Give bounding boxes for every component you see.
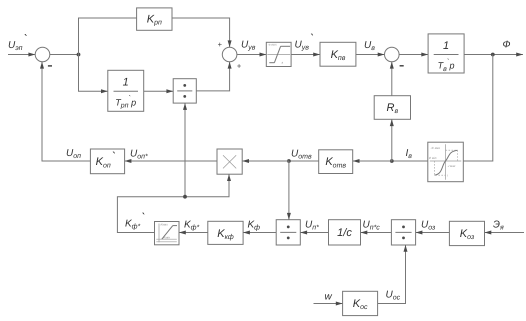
wire Kрп to S2 top <box>172 18 230 47</box>
symbol saturation curve NL1 <box>267 42 290 64</box>
wire Kф* rail <box>117 174 229 232</box>
wire node F down to NL2 <box>463 55 493 162</box>
svg-text:Kмах: Kмах <box>161 222 169 226</box>
wire M1 to Kоп <box>125 160 217 162</box>
divider D1 <box>173 79 196 103</box>
wire Kкф to NL3 <box>179 232 208 234</box>
wire Uэп input <box>8 54 35 56</box>
divider D2 <box>276 220 300 245</box>
wire Kос to divider D3 bottom <box>378 245 406 304</box>
label minus at S3 <box>400 65 404 67</box>
block Kотв <box>319 150 353 174</box>
wire 1/Tвp to node F and output <box>464 54 523 56</box>
wire Эя input <box>485 232 525 234</box>
symbol magnetization curve NL2 <box>429 144 462 180</box>
junction node F (flux) <box>491 53 495 57</box>
wire node B down to divider D2 <box>288 161 290 220</box>
wire Kотв to node B <box>289 160 319 162</box>
wire S2 to limiter NL1 <box>237 54 266 56</box>
nonlinearity NL3 (limiter) <box>155 222 180 245</box>
block 1/Tрпp (integrator) <box>108 70 144 111</box>
summing junction summer S1 (Uэп - Uоп) <box>35 47 50 62</box>
wire node A up to Kрп <box>79 18 137 55</box>
symbol multiply cross M1 <box>223 155 236 168</box>
wire S3 to 1/Tвp <box>399 54 428 56</box>
wire node Iв to Kотв <box>353 160 392 162</box>
block Kпв <box>320 42 356 66</box>
svg-text:w: w <box>325 292 333 303</box>
block 1/c <box>329 220 361 245</box>
junction node Iв <box>390 159 394 163</box>
svg-text:-Ф мах: -Ф мах <box>431 146 441 150</box>
nonlinearity NL2 (magnetization curve) <box>428 142 464 182</box>
svg-text:-I мах: -I мах <box>448 164 456 168</box>
wire divider D3 to 1/c <box>361 232 392 234</box>
svg-text:Tв`p: Tв`p <box>438 57 455 73</box>
wire NL1 to Kпв <box>291 54 320 56</box>
svg-text:1: 1 <box>443 40 449 52</box>
label minus at S1 <box>48 65 52 67</box>
svg-text:1: 1 <box>123 77 129 89</box>
svg-text:+: + <box>237 61 242 70</box>
multiplier M1 <box>217 149 242 174</box>
block Kоп <box>90 149 124 174</box>
wire 1/c to divider D2 <box>300 232 328 234</box>
block Kос <box>343 291 378 315</box>
block 1/Tвp <box>428 34 464 73</box>
block Rв <box>374 96 410 120</box>
wire node B to multiplier M1 <box>242 160 289 162</box>
block Kрп <box>137 8 172 30</box>
wire divider D1 bottom feed <box>184 103 186 197</box>
divider D3 <box>391 220 415 245</box>
wire divider D1 to S2 bottom <box>196 62 229 91</box>
nonlinearity NL1 (saturation limiter) <box>266 42 291 66</box>
block Kкф <box>208 221 243 244</box>
wire Rв to S3 bottom <box>391 62 393 96</box>
svg-text:Ф: Ф <box>503 40 511 51</box>
svg-text:1/с: 1/с <box>337 227 352 239</box>
junction node C (Kф* rail) <box>183 195 187 199</box>
summing junction summer S3 (Uв - IвRв) <box>385 47 400 62</box>
block Kоз <box>449 221 484 245</box>
wire w input <box>314 303 343 305</box>
wire NL2 to node Iв <box>392 160 428 162</box>
junction node B (Uотв) <box>287 159 291 163</box>
svg-text:-а вых: -а вых <box>268 42 277 46</box>
wire node A down to integrator <box>79 55 108 92</box>
wire node Iв up to Rв <box>391 119 393 161</box>
svg-text:+: + <box>218 40 223 49</box>
wire Kоп to S1 bottom (feedback) <box>42 62 90 161</box>
wire Kпв to S3 <box>356 54 385 56</box>
wire S1 to node A <box>50 54 79 56</box>
symbol limiter curve NL3 <box>156 222 177 242</box>
wire integrator to divider D1 <box>144 90 174 92</box>
junction node A <box>77 53 81 57</box>
wire divider D2 to Kкф <box>243 232 276 234</box>
summing junction summer S2 (Kрп + divider) <box>222 47 237 62</box>
wire Kоз to divider D3 <box>416 232 450 234</box>
svg-text:Ф мin: Ф мin <box>429 156 437 160</box>
svg-text:Kмin: Kмin <box>164 235 171 239</box>
